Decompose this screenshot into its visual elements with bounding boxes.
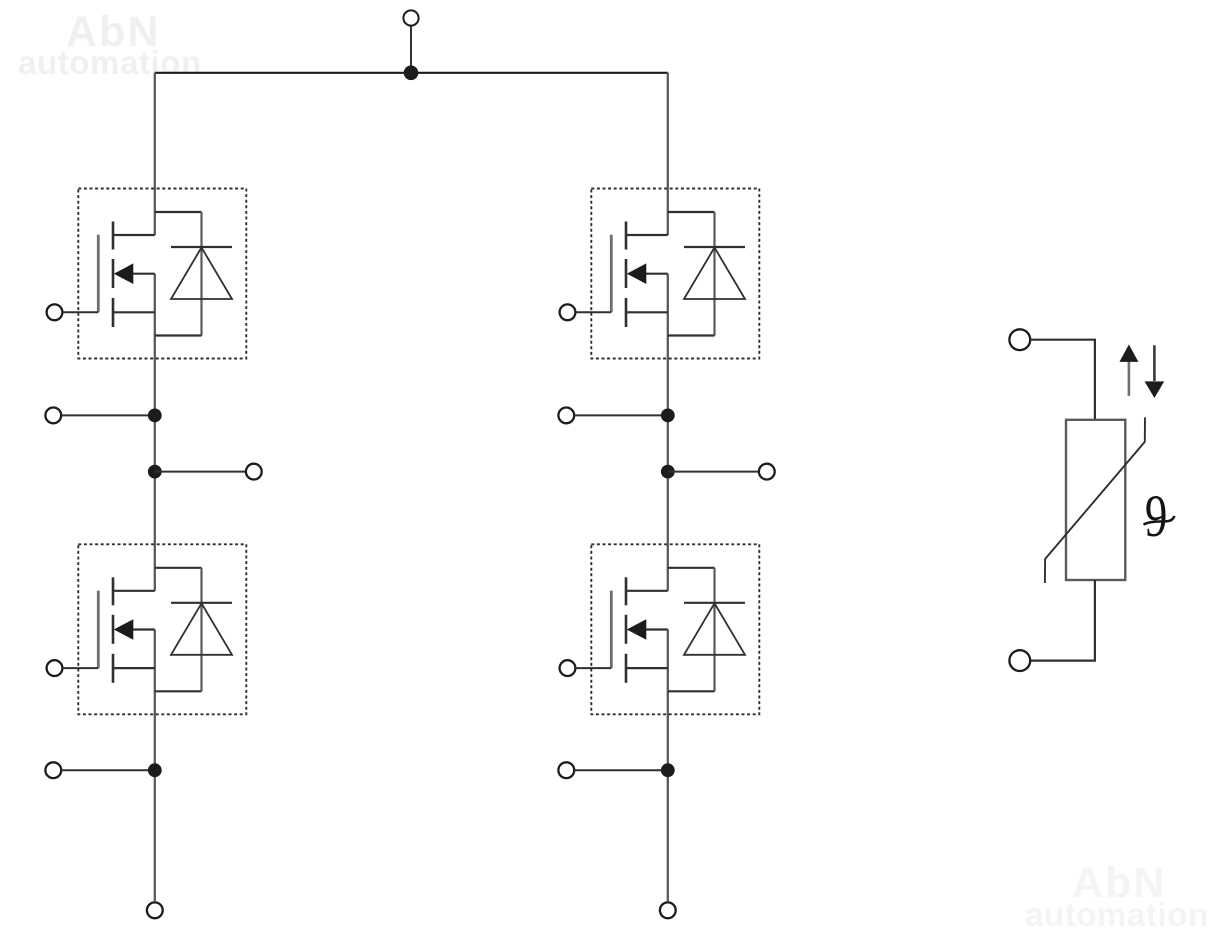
junction (left bottom node) [148,763,162,777]
terminal (top DC+ pin) [403,10,418,25]
terminal (right source-sense pin, lower) [558,762,574,778]
diode D2 (antiparallel) [155,568,232,692]
terminal (gate pin Q3) [560,304,576,320]
wire (left source-sense, lower) [61,769,155,771]
junction (right bottom node) [661,763,675,777]
arrow (up, bidirectional temperature) [1119,345,1138,396]
terminal (right phase output pin) [759,464,775,480]
transistor Q3 (N-MOSFET) [611,222,668,328]
transistor Q4 (N-MOSFET) [611,577,668,683]
label (theta, temperature symbol) [1144,484,1175,550]
terminal (left source-sense pin, lower) [45,762,61,778]
module outline (Q1 cell, dashed) [78,189,246,359]
wire (right leg: Q3 source to Q4 drain) [667,274,669,591]
transistor Q2 (N-MOSFET) [98,577,155,683]
thermistor RT1 (NTC body) [1066,420,1125,580]
junction (right leg midpoint node) [661,409,675,423]
terminal (thermistor pin, top) [1009,329,1030,350]
thermistor RT1 (characteristic diagonal) [1045,417,1145,583]
wire (right source-sense, lower) [574,769,668,771]
wire (left leg: Q1 source to Q2 drain) [154,274,156,591]
junction (right phase node) [661,465,675,479]
terminal (right bottom DC- pin) [660,902,676,918]
watermark (bottom-right "AbN automation") [1072,862,1166,905]
terminal (gate pin Q4) [560,660,576,676]
junction (bus node) [404,66,419,81]
wire (left leg: bus to Q1 drain) [154,73,156,235]
module outline (Q4 cell, dashed) [591,544,759,714]
wire (top pin to bus) [410,26,412,73]
terminal (right source-sense pin, upper) [558,408,574,424]
wire (right leg: bus to Q3 drain) [667,73,669,235]
wire (gate lead Q1) [62,311,98,313]
wire (gate lead Q3) [575,311,611,313]
wire (gate lead Q2) [62,667,98,669]
watermark (top-left "AbN automation") [66,11,160,54]
terminal (left source-sense pin, upper) [45,408,61,424]
terminal (gate pin Q1) [47,304,63,320]
diode D3 (antiparallel) [668,212,745,336]
junction (left phase node) [148,465,162,479]
diode D1 (antiparallel) [155,212,232,336]
wire (thermistor top lead) [1030,340,1095,420]
wire (left leg: Q2 source to bottom pin) [154,630,156,902]
junction (left leg midpoint node) [148,409,162,423]
terminal (thermistor pin, bottom) [1009,650,1030,671]
terminal (left bottom DC- pin) [147,902,163,918]
terminal (left phase output pin) [246,464,262,480]
wire (top bus) [155,72,668,74]
wire (gate lead Q4) [575,667,611,669]
wire (left phase output) [155,471,245,473]
module outline (Q2 cell, dashed) [78,544,246,714]
wire (right leg: Q4 source to bottom pin) [667,630,669,902]
diode D4 (antiparallel) [668,568,745,692]
terminal (gate pin Q2) [47,660,63,676]
wire (left source-sense, upper) [61,414,155,416]
wire (right phase output) [668,471,758,473]
svg-text:9: 9 [1145,484,1167,550]
wire (thermistor bottom lead) [1030,580,1095,661]
module outline (Q3 cell, dashed) [591,189,759,359]
transistor Q1 (N-MOSFET) [98,222,155,328]
arrow (down, bidirectional temperature) [1145,345,1165,398]
wire (right source-sense, upper) [574,414,668,416]
